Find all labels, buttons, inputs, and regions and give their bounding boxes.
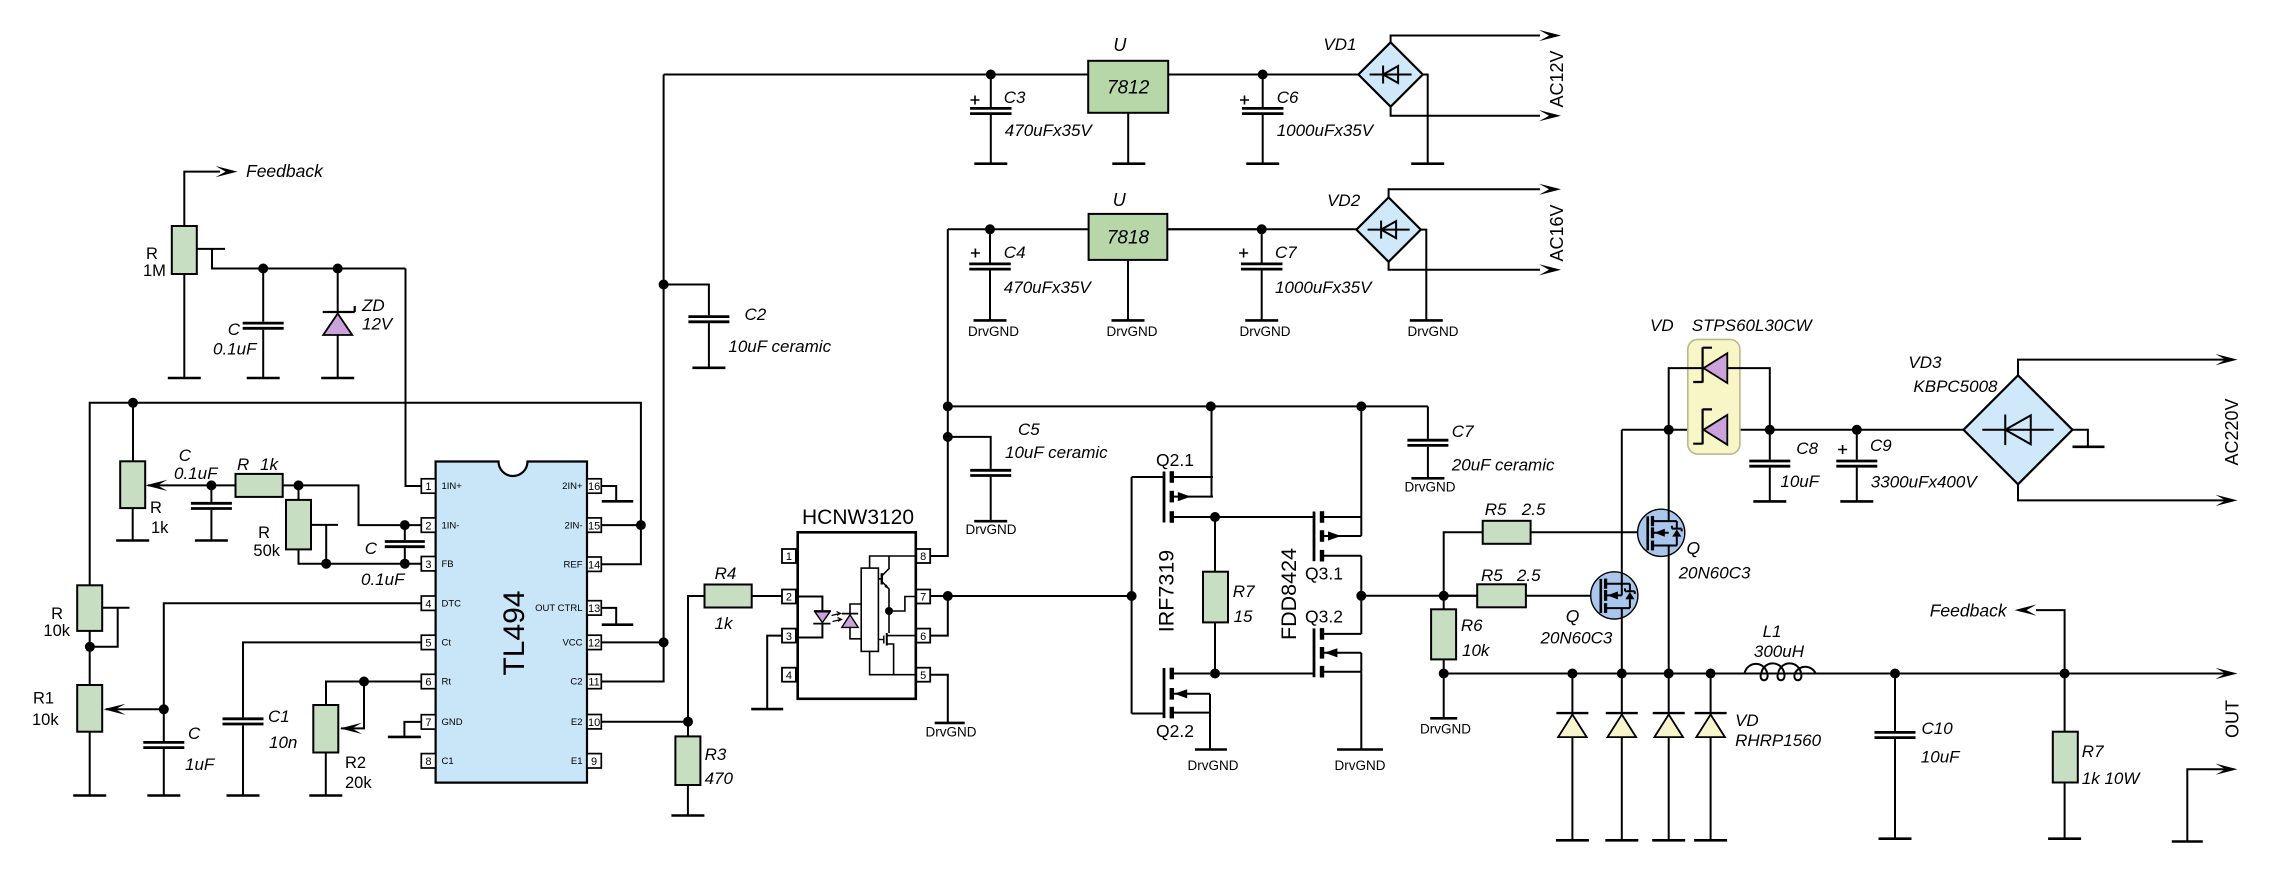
node diode2 (1617, 669, 1627, 679)
svg-text:10k: 10k (43, 622, 70, 640)
wire REF rail y=403 (90, 403, 641, 586)
ground C9 (1840, 500, 1873, 503)
wire Q lower drain (1621, 430, 1623, 596)
wire to 1IN- pin2 (299, 485, 422, 525)
capacitor C 0.1uF (FB) (404, 525, 406, 540)
node pin2 C (400, 520, 410, 530)
svg-text:3: 3 (425, 559, 431, 571)
pin 12 TL494 (587, 635, 601, 649)
pin 7 HCNW3120 (916, 590, 930, 604)
transistor Q 20N60C3 upper (1638, 509, 1685, 556)
svg-text:DrvGND: DrvGND (926, 725, 977, 740)
svg-text:10n: 10n (269, 733, 297, 752)
svg-text:3: 3 (786, 631, 792, 643)
ground VD1 (1411, 162, 1444, 165)
node R10k tap (85, 642, 95, 652)
resistor R5 2.5 lower (1444, 595, 1478, 597)
resistor R6 10k (1443, 596, 1445, 610)
wire C6 to VD1 (1263, 74, 1359, 76)
ground C7 1000uF (1245, 319, 1278, 322)
wire R2 wiper (341, 682, 364, 729)
ground C6 (1246, 162, 1279, 165)
ground R3 (671, 814, 704, 817)
wire Q lower source (1621, 608, 1623, 673)
ground ZD (321, 377, 354, 380)
svg-text:VCC: VCC (562, 638, 582, 649)
node C10 (1890, 669, 1900, 679)
svg-text:IRF7319: IRF7319 (1155, 550, 1179, 632)
svg-text:2.5: 2.5 (1521, 500, 1546, 519)
node C3 (986, 70, 996, 80)
svg-text:8: 8 (425, 756, 431, 768)
svg-text:Q2.2: Q2.2 (1156, 721, 1194, 741)
node C2 tap (659, 280, 669, 290)
arrow R1k wiper (148, 484, 211, 486)
capacitor C1 10n (223, 719, 264, 724)
node Rt (359, 677, 369, 687)
arrow AC16V top (1539, 184, 1561, 195)
svg-text:7818: 7818 (1107, 228, 1150, 249)
capacitor C4 470uFx35V (989, 229, 991, 262)
resistor R 1k horizontal (236, 474, 283, 497)
node Q2.1 source (1210, 512, 1220, 522)
wire feedback right (2036, 610, 2065, 673)
wire R1 bottom (89, 732, 91, 795)
node C9 rail (1852, 425, 1862, 435)
node drive rail top (943, 401, 953, 411)
diode VD RHRP1560 #4 (1710, 674, 1712, 713)
ground C7 20uF (1411, 477, 1444, 480)
wire OUT line (1444, 673, 2228, 675)
svg-text:7812: 7812 (1107, 78, 1150, 99)
svg-text:4: 4 (425, 598, 431, 610)
svg-text:0.1uF: 0.1uF (361, 570, 406, 589)
pin 4 HCNW3120 (782, 668, 796, 682)
svg-text:1: 1 (425, 481, 431, 493)
wire VD2 bottom arrow (1389, 262, 1540, 270)
pin 8 TL494 (421, 754, 435, 768)
svg-text:20uF ceramic: 20uF ceramic (1451, 456, 1555, 475)
potentiometer R2 20k (313, 705, 338, 753)
svg-text:C: C (228, 320, 241, 339)
svg-text:R7: R7 (2082, 742, 2104, 761)
wire HV rail (1622, 429, 1964, 431)
svg-text:1k: 1k (151, 519, 169, 537)
node VCC (659, 637, 669, 647)
svg-text:TL494: TL494 (498, 590, 531, 675)
capacitor C10 10uF (1894, 674, 1896, 732)
svg-text:R: R (146, 245, 158, 263)
svg-text:1: 1 (786, 551, 792, 563)
bridge VD1 (1358, 42, 1422, 106)
capacitor C6 1000uFx35V (1262, 75, 1264, 108)
node Q upper drain rail (1664, 425, 1674, 435)
ground 7812 (1112, 162, 1145, 165)
output transistor HCNW (870, 556, 917, 568)
wire VD1 top arrow (1391, 36, 1540, 43)
wire R6 to ground (1443, 674, 1445, 718)
wire 7812 out (1168, 74, 1263, 76)
regulator U 7818 (1089, 214, 1168, 260)
svg-text:R5: R5 (1481, 566, 1503, 585)
node E2-R3-R4 (683, 717, 693, 727)
svg-text:1M: 1M (143, 262, 166, 280)
svg-text:10uF ceramic: 10uF ceramic (1005, 443, 1108, 462)
capacitor C7 1000uFx35V (1261, 229, 1263, 262)
wire R5 upper to Q gate (1531, 531, 1648, 533)
svg-text:C7: C7 (1275, 243, 1297, 262)
node R7 feedback (2060, 669, 2070, 679)
node pin3 C (400, 559, 410, 569)
wire Q2.1 source to Q3.1 gate (1215, 516, 1314, 518)
svg-text:VD3: VD3 (1908, 353, 1942, 372)
arrow AC220V top (2216, 354, 2238, 365)
ground aux out (2172, 840, 2203, 843)
svg-text:3300uFx400V: 3300uFx400V (1871, 473, 1979, 492)
svg-text:VD: VD (1650, 316, 1674, 335)
ground C 0.1uF filter (195, 539, 228, 542)
svg-text:7: 7 (920, 592, 926, 604)
ground pin3 HCNW (751, 708, 783, 711)
arrow R2 wiper (340, 723, 362, 734)
wire VCC rail vertical (601, 75, 663, 682)
svg-text:DrvGND: DrvGND (968, 324, 1019, 339)
arrow aux out (2216, 764, 2238, 775)
wire R3 bottom (687, 785, 689, 815)
capacitor C 0.1uF (pot filter) (210, 485, 212, 502)
svg-text:1k: 1k (260, 455, 279, 474)
svg-text:DTC: DTC (442, 598, 462, 609)
ground R2 (309, 794, 342, 797)
ground pin5 HCNW (935, 722, 965, 725)
capacitor C8 10uF (1769, 430, 1771, 460)
wire 7818 gnd (1127, 260, 1129, 320)
svg-text:Q3.2: Q3.2 (1305, 607, 1343, 627)
ground C5 (974, 520, 1007, 523)
ground R6 (1430, 717, 1457, 720)
wire pin8 HCNW to 18V rail (930, 229, 948, 556)
node Q2.2 drain (1210, 669, 1220, 679)
wire 18V rail (948, 228, 1357, 230)
wire 7812 gnd (1127, 113, 1129, 163)
node R1k-h out (294, 480, 304, 490)
svg-text:R: R (258, 524, 270, 542)
svg-text:DrvGND: DrvGND (1107, 324, 1158, 339)
svg-text:0.1uF: 0.1uF (174, 464, 219, 483)
pin 10 TL494 (587, 715, 601, 729)
svg-text:VD2: VD2 (1327, 191, 1361, 210)
transistor Q 20N60C3 lower (1591, 572, 1638, 619)
svg-text:E2: E2 (571, 717, 583, 728)
arrow AC220V bottom (2216, 495, 2238, 506)
arrow OUT line (2216, 668, 2238, 679)
transistor Q2.2 (IRF7319 N) (1163, 668, 1166, 718)
svg-text:1IN+: 1IN+ (442, 481, 463, 492)
node pin15 REF vertical (636, 520, 646, 530)
svg-text:2IN-: 2IN- (565, 520, 583, 531)
wire 7818 out (1167, 228, 1261, 230)
node diode3 (1664, 669, 1674, 679)
svg-text:C5: C5 (1018, 420, 1040, 439)
node R50k wiper-FB (321, 559, 331, 569)
svg-text:13: 13 (588, 603, 600, 615)
capacitor C9 3300uFx400V (1856, 430, 1858, 460)
pin 1 HCNW3120 (782, 549, 796, 563)
wire driver output (1361, 595, 1477, 597)
ground R7 1k10W (2048, 837, 2081, 840)
svg-text:RHRP1560: RHRP1560 (1735, 731, 1822, 750)
svg-text:R3: R3 (705, 745, 727, 764)
svg-text:11: 11 (588, 677, 599, 689)
svg-text:Q: Q (1566, 606, 1580, 626)
node R6 bottom OUT line start (1439, 669, 1449, 679)
svg-text:KBPC5008: KBPC5008 (1913, 377, 1998, 396)
svg-text:DrvGND: DrvGND (1188, 758, 1239, 773)
schottky VD lower (1693, 409, 1712, 444)
ground R1 (73, 794, 106, 797)
node diode1 (1567, 669, 1577, 679)
resistor R7 1k 10W (2064, 674, 2066, 732)
node R1 wiper (159, 704, 169, 714)
svg-text:0.1uF: 0.1uF (213, 340, 258, 359)
svg-text:E1: E1 (571, 756, 583, 767)
pin 13 TL494 (587, 601, 601, 615)
svg-text:R4: R4 (715, 564, 737, 583)
diode VD RHRP1560 #2 (1621, 674, 1623, 713)
pin 9 TL494 (587, 754, 601, 768)
capacitor C3 470uFx35V (990, 75, 992, 108)
svg-text:16: 16 (588, 481, 600, 493)
node C 0.1uF top-left (258, 264, 268, 274)
svg-text:C2: C2 (570, 677, 582, 688)
node ZD (333, 264, 343, 274)
wire Q upper source (1668, 546, 1670, 674)
node C5 tap (943, 432, 953, 442)
svg-text:U: U (1113, 35, 1127, 55)
svg-text:50k: 50k (253, 542, 280, 560)
capacitor C5 10uF ceramic (948, 437, 991, 469)
wire Rt pin6 (326, 682, 421, 706)
svg-text:STPS60L30CW: STPS60L30CW (1692, 316, 1814, 335)
ground C 1uF (147, 794, 180, 797)
arrow R1 wiper (106, 708, 164, 710)
svg-text:15: 15 (1234, 607, 1253, 626)
svg-text:R: R (51, 605, 63, 623)
wire R1k bottom (132, 508, 134, 540)
pin 8 HCNW3120 (916, 549, 930, 563)
ground VD3 right (2072, 430, 2088, 446)
potentiometer R1 10k (77, 685, 102, 732)
node Q3.1 drain rail (1356, 401, 1366, 411)
svg-text:8: 8 (920, 551, 926, 563)
svg-text:6: 6 (425, 677, 431, 689)
regulator U 7812 (1088, 61, 1168, 113)
wire pin6 HCNW (930, 596, 948, 636)
wire VD1 right ground (1423, 75, 1428, 163)
resistor R3 470 (687, 722, 689, 737)
pin 3 TL494 (421, 557, 435, 571)
svg-text:C: C (188, 724, 201, 743)
svg-text:VD: VD (1735, 711, 1759, 730)
svg-text:C9: C9 (1870, 436, 1892, 455)
node C6 (1258, 70, 1268, 80)
svg-text:C7: C7 (1452, 422, 1474, 441)
svg-text:5: 5 (425, 638, 431, 650)
wire FB line pin3 (299, 549, 422, 563)
capacitor C2 10uF ceramic (664, 285, 709, 316)
wire R4 left (688, 596, 705, 722)
wire VD2 top arrow (1389, 189, 1540, 197)
svg-text:470: 470 (705, 769, 734, 788)
svg-text:12V: 12V (362, 315, 394, 334)
diode VD RHRP1560 #1 (1571, 674, 1573, 713)
node C7 1000uF (1257, 224, 1267, 234)
amp block HCNW (861, 568, 878, 651)
ground Q2.2 (1195, 748, 1227, 751)
svg-text:1000uFx35V: 1000uFx35V (1275, 278, 1373, 297)
wire R4 to pin2 HCNW (752, 595, 782, 597)
node gate link (1127, 591, 1137, 601)
resistor R4 1k (705, 585, 752, 608)
svg-text:OUT CTRL: OUT CTRL (535, 603, 582, 614)
pin 5 HCNW3120 (916, 668, 930, 682)
svg-text:DrvGND: DrvGND (1335, 758, 1386, 773)
svg-text:1k: 1k (715, 614, 734, 633)
svg-text:C4: C4 (1004, 243, 1026, 262)
svg-text:FB: FB (442, 559, 454, 570)
transistor Q2.1 (IRF7319 P) (1132, 476, 1164, 478)
svg-text:C10: C10 (1922, 719, 1954, 738)
IC TL494 body (436, 462, 587, 783)
zener ZD 12V (337, 269, 339, 313)
svg-text:R2: R2 (345, 754, 366, 772)
ground C top-left (247, 377, 280, 380)
wire Q2.2 drain to Q3.2 gate (1215, 673, 1314, 675)
wire VD2 right ground (1421, 230, 1427, 320)
svg-text:C1: C1 (442, 756, 454, 767)
wire pin15 2IN- (601, 524, 641, 526)
svg-text:C6: C6 (1277, 88, 1299, 107)
wire Q upper drain (1668, 430, 1670, 521)
ground C1 (227, 794, 260, 797)
svg-text:C3: C3 (1004, 88, 1026, 107)
svg-text:DrvGND: DrvGND (966, 522, 1017, 537)
svg-text:REF: REF (564, 559, 583, 570)
transistor Q3.2 (FDD8424 N) (1313, 628, 1316, 677)
arrow AC12V bottom (1539, 110, 1561, 121)
svg-text:Feedback: Feedback (1930, 601, 2008, 621)
diode pack VD STPS60L30CW box (1688, 339, 1740, 454)
svg-text:10k: 10k (32, 711, 59, 729)
node C8 rail (1765, 425, 1775, 435)
wire 1IN+ vertical (406, 269, 422, 487)
node HCNW output (885, 607, 893, 615)
svg-text:15: 15 (588, 520, 600, 532)
wire 12V rail (664, 74, 1359, 76)
svg-text:Q3.1: Q3.1 (1305, 564, 1343, 584)
ground C4 (974, 319, 1007, 322)
ground pin16 stub (602, 500, 634, 503)
wire R1M bottom (183, 274, 185, 378)
svg-text:1000uFx35V: 1000uFx35V (1277, 121, 1375, 140)
wire R2 bottom (325, 753, 327, 796)
ground R1M (168, 377, 201, 380)
wire pin5 HCNW to ground (930, 675, 948, 722)
svg-text:4: 4 (786, 670, 792, 682)
svg-text:C: C (179, 446, 192, 465)
svg-text:20k: 20k (345, 774, 372, 792)
pin 2 HCNW3120 (782, 590, 796, 604)
resistor R7 15 (1214, 517, 1216, 572)
svg-text:DrvGND: DrvGND (1408, 324, 1459, 339)
wire pin7 HCNW output (930, 595, 1131, 597)
resistor R 50k (298, 485, 300, 500)
svg-text:FDD8424: FDD8424 (1277, 548, 1301, 640)
pin 5 TL494 (421, 635, 435, 649)
svg-text:ZD: ZD (361, 296, 385, 315)
svg-text:Rt: Rt (442, 677, 452, 688)
wire pin12 VCC (601, 641, 663, 643)
svg-text:2: 2 (425, 520, 431, 532)
schottky VD upper (1669, 368, 1703, 430)
resistor R 1M (172, 226, 197, 274)
wire Ct pin5 (243, 642, 421, 717)
svg-text:2.5: 2.5 (1516, 566, 1541, 585)
wire pin7 HCNW internal (889, 597, 916, 612)
bridge VD2 (1356, 197, 1420, 261)
node pin7-pin6 (943, 591, 953, 601)
wire pin7 GND symbol (404, 722, 421, 737)
capacitor C 1uF (143, 742, 184, 747)
LED HCNW input (796, 597, 823, 612)
resistor R 10k (77, 585, 102, 631)
diode VD RHRP1560 #3 (1668, 674, 1670, 713)
svg-text:L1: L1 (1763, 622, 1782, 641)
pin 2 TL494 (421, 518, 435, 532)
svg-text:10uF: 10uF (1780, 472, 1820, 491)
node C01 junction (206, 480, 216, 490)
svg-text:R6: R6 (1461, 616, 1483, 635)
svg-text:C1: C1 (268, 707, 290, 726)
IC HCNW3120 body (798, 532, 916, 699)
wire feedback stub (184, 172, 220, 226)
svg-text:2IN+: 2IN+ (562, 481, 583, 492)
svg-text:6: 6 (920, 631, 926, 643)
pin 6 HCNW3120 (916, 629, 930, 643)
wire pin14 REF (601, 525, 641, 564)
svg-text:Q2.1: Q2.1 (1156, 450, 1194, 470)
ground C3 (974, 162, 1007, 165)
svg-text:HCNW3120: HCNW3120 (802, 506, 914, 529)
wire aux out arrow (2187, 769, 2228, 840)
svg-text:10uF ceramic: 10uF ceramic (728, 337, 831, 356)
wire VD1 bottom arrow (1391, 107, 1540, 116)
svg-text:DrvGND: DrvGND (1420, 722, 1471, 737)
wire C01 to R1k-h (211, 484, 235, 486)
wire R5 lower to Q gate (1526, 595, 1601, 597)
svg-text:14: 14 (588, 559, 600, 571)
svg-text:Ct: Ct (442, 638, 452, 649)
pin 16 TL494 (587, 479, 601, 493)
resistor R5 2.5 upper (1483, 521, 1531, 544)
svg-text:10k: 10k (1462, 641, 1491, 660)
wire VD3 top to AC (2018, 360, 2228, 376)
photon arrows (832, 612, 842, 622)
svg-text:7: 7 (425, 717, 431, 729)
svg-text:2: 2 (786, 592, 792, 604)
svg-text:OUT: OUT (2223, 700, 2243, 738)
svg-text:DrvGND: DrvGND (1240, 324, 1291, 339)
